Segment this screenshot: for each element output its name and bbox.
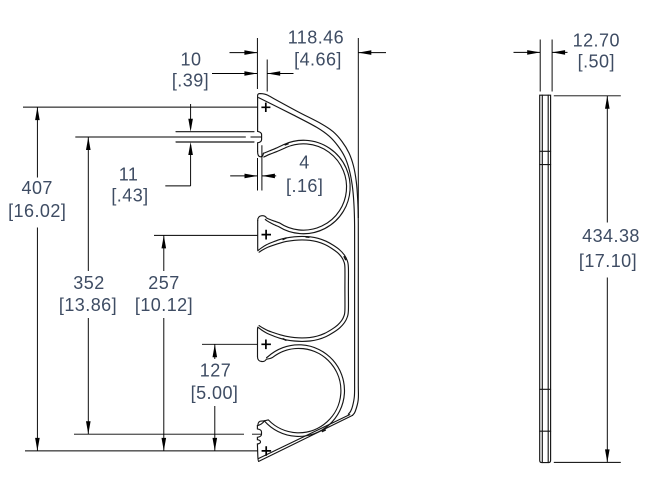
svg-text:257: 257 bbox=[148, 273, 179, 293]
bottom inner diagonal edge bbox=[258, 415, 349, 459]
dim 257 top extension line bbox=[154, 234, 257, 236]
ring 3 inner arc bbox=[258, 348, 341, 432]
dim 434.38 vertical line bbox=[606, 96, 608, 463]
side bar inner line right bbox=[547, 95, 549, 462]
ring 3 outer arc bbox=[257, 345, 344, 437]
center mark tab 1 bbox=[262, 230, 272, 240]
side bar outline bbox=[540, 95, 551, 462]
svg-text:127: 127 bbox=[200, 361, 231, 381]
svg-text:434.38: 434.38 bbox=[582, 226, 640, 246]
side bar joint line 3 bbox=[540, 388, 551, 390]
svg-text:12.70: 12.70 bbox=[573, 31, 620, 51]
center mark top flag bbox=[261, 103, 270, 112]
dim 352 bottom extension line bbox=[74, 433, 261, 435]
side bar inner line left bbox=[541, 95, 543, 462]
ring 2 outer contour (top edge, right side, bottom edge) bbox=[258, 236, 349, 341]
svg-text:[13.86]: [13.86] bbox=[59, 295, 117, 315]
tab 1 left edge bbox=[257, 221, 259, 251]
upper hook cap bbox=[258, 152, 264, 157]
tangent tick marks at curve junctions bbox=[283, 144, 346, 432]
svg-text:[.50]: [.50] bbox=[578, 52, 615, 72]
tab 2 left edge bbox=[257, 327, 259, 357]
center mark tab 2 bbox=[261, 340, 271, 350]
svg-text:[10.12]: [10.12] bbox=[135, 295, 193, 315]
svg-text:407: 407 bbox=[22, 178, 53, 198]
svg-text:[.39]: [.39] bbox=[172, 71, 209, 91]
dim 4 arrows bbox=[230, 175, 276, 177]
blade (thin mating strip) top line bbox=[176, 131, 254, 133]
dim 407 vertical line bbox=[36, 107, 38, 451]
dim 12.70 arrows bbox=[514, 51, 568, 53]
svg-text:[4.66]: [4.66] bbox=[294, 50, 342, 70]
svg-text:[.16]: [.16] bbox=[286, 176, 323, 196]
dim 4 extension lines bbox=[258, 145, 262, 190]
dim 10 arrows bbox=[212, 73, 294, 75]
dim 407/257/127 bottom extension line bbox=[25, 450, 257, 452]
dim 127 top extension line bbox=[202, 343, 257, 345]
lower left edge with slot recesses bbox=[257, 426, 261, 462]
dim 118.46 extension lines bbox=[257, 38, 358, 218]
svg-text:[5.00]: [5.00] bbox=[191, 383, 239, 403]
wall outer skin (top slant, right wall, bottom curve) bbox=[258, 94, 359, 416]
svg-text:118.46: 118.46 bbox=[288, 28, 344, 48]
svg-text:[17.10]: [17.10] bbox=[579, 251, 637, 271]
side bar joint line 4 bbox=[540, 430, 551, 432]
svg-text:352: 352 bbox=[73, 273, 104, 293]
dim 434.38 extension lines bbox=[554, 96, 621, 463]
ring 1 outer arc bbox=[263, 140, 350, 233]
ring 1 inner arc bbox=[258, 144, 347, 230]
ring 2 inner contour bbox=[259, 240, 345, 338]
side bar joint line 2 bbox=[540, 164, 551, 166]
bottom outer diagonal edge bbox=[259, 415, 353, 461]
side bar joint line 1 bbox=[540, 150, 551, 152]
wall inner skin bbox=[259, 98, 355, 415]
dim 257 vertical line bbox=[163, 235, 165, 451]
dim 118.46 arrows bbox=[230, 52, 387, 54]
dim 127 vertical line bbox=[214, 344, 216, 451]
svg-text:11: 11 bbox=[119, 165, 139, 185]
svg-text:4: 4 bbox=[299, 153, 309, 173]
svg-text:[16.02]: [16.02] bbox=[8, 201, 66, 221]
center mark bottom tip bbox=[262, 446, 272, 456]
dim 407 extension line top bbox=[23, 106, 257, 108]
svg-text:10: 10 bbox=[181, 50, 202, 70]
dim 12.70 extension lines bbox=[540, 40, 552, 92]
svg-text:[.43]: [.43] bbox=[111, 186, 148, 206]
dim 10 extension line right bbox=[266, 60, 268, 92]
blade bottom line bbox=[176, 141, 254, 143]
dim 352 vertical line bbox=[87, 137, 89, 434]
dim 11 arrows bbox=[165, 104, 190, 186]
blade slot recess on left edge (top) bbox=[258, 131, 262, 151]
dim 352 top extension line bbox=[75, 136, 261, 138]
